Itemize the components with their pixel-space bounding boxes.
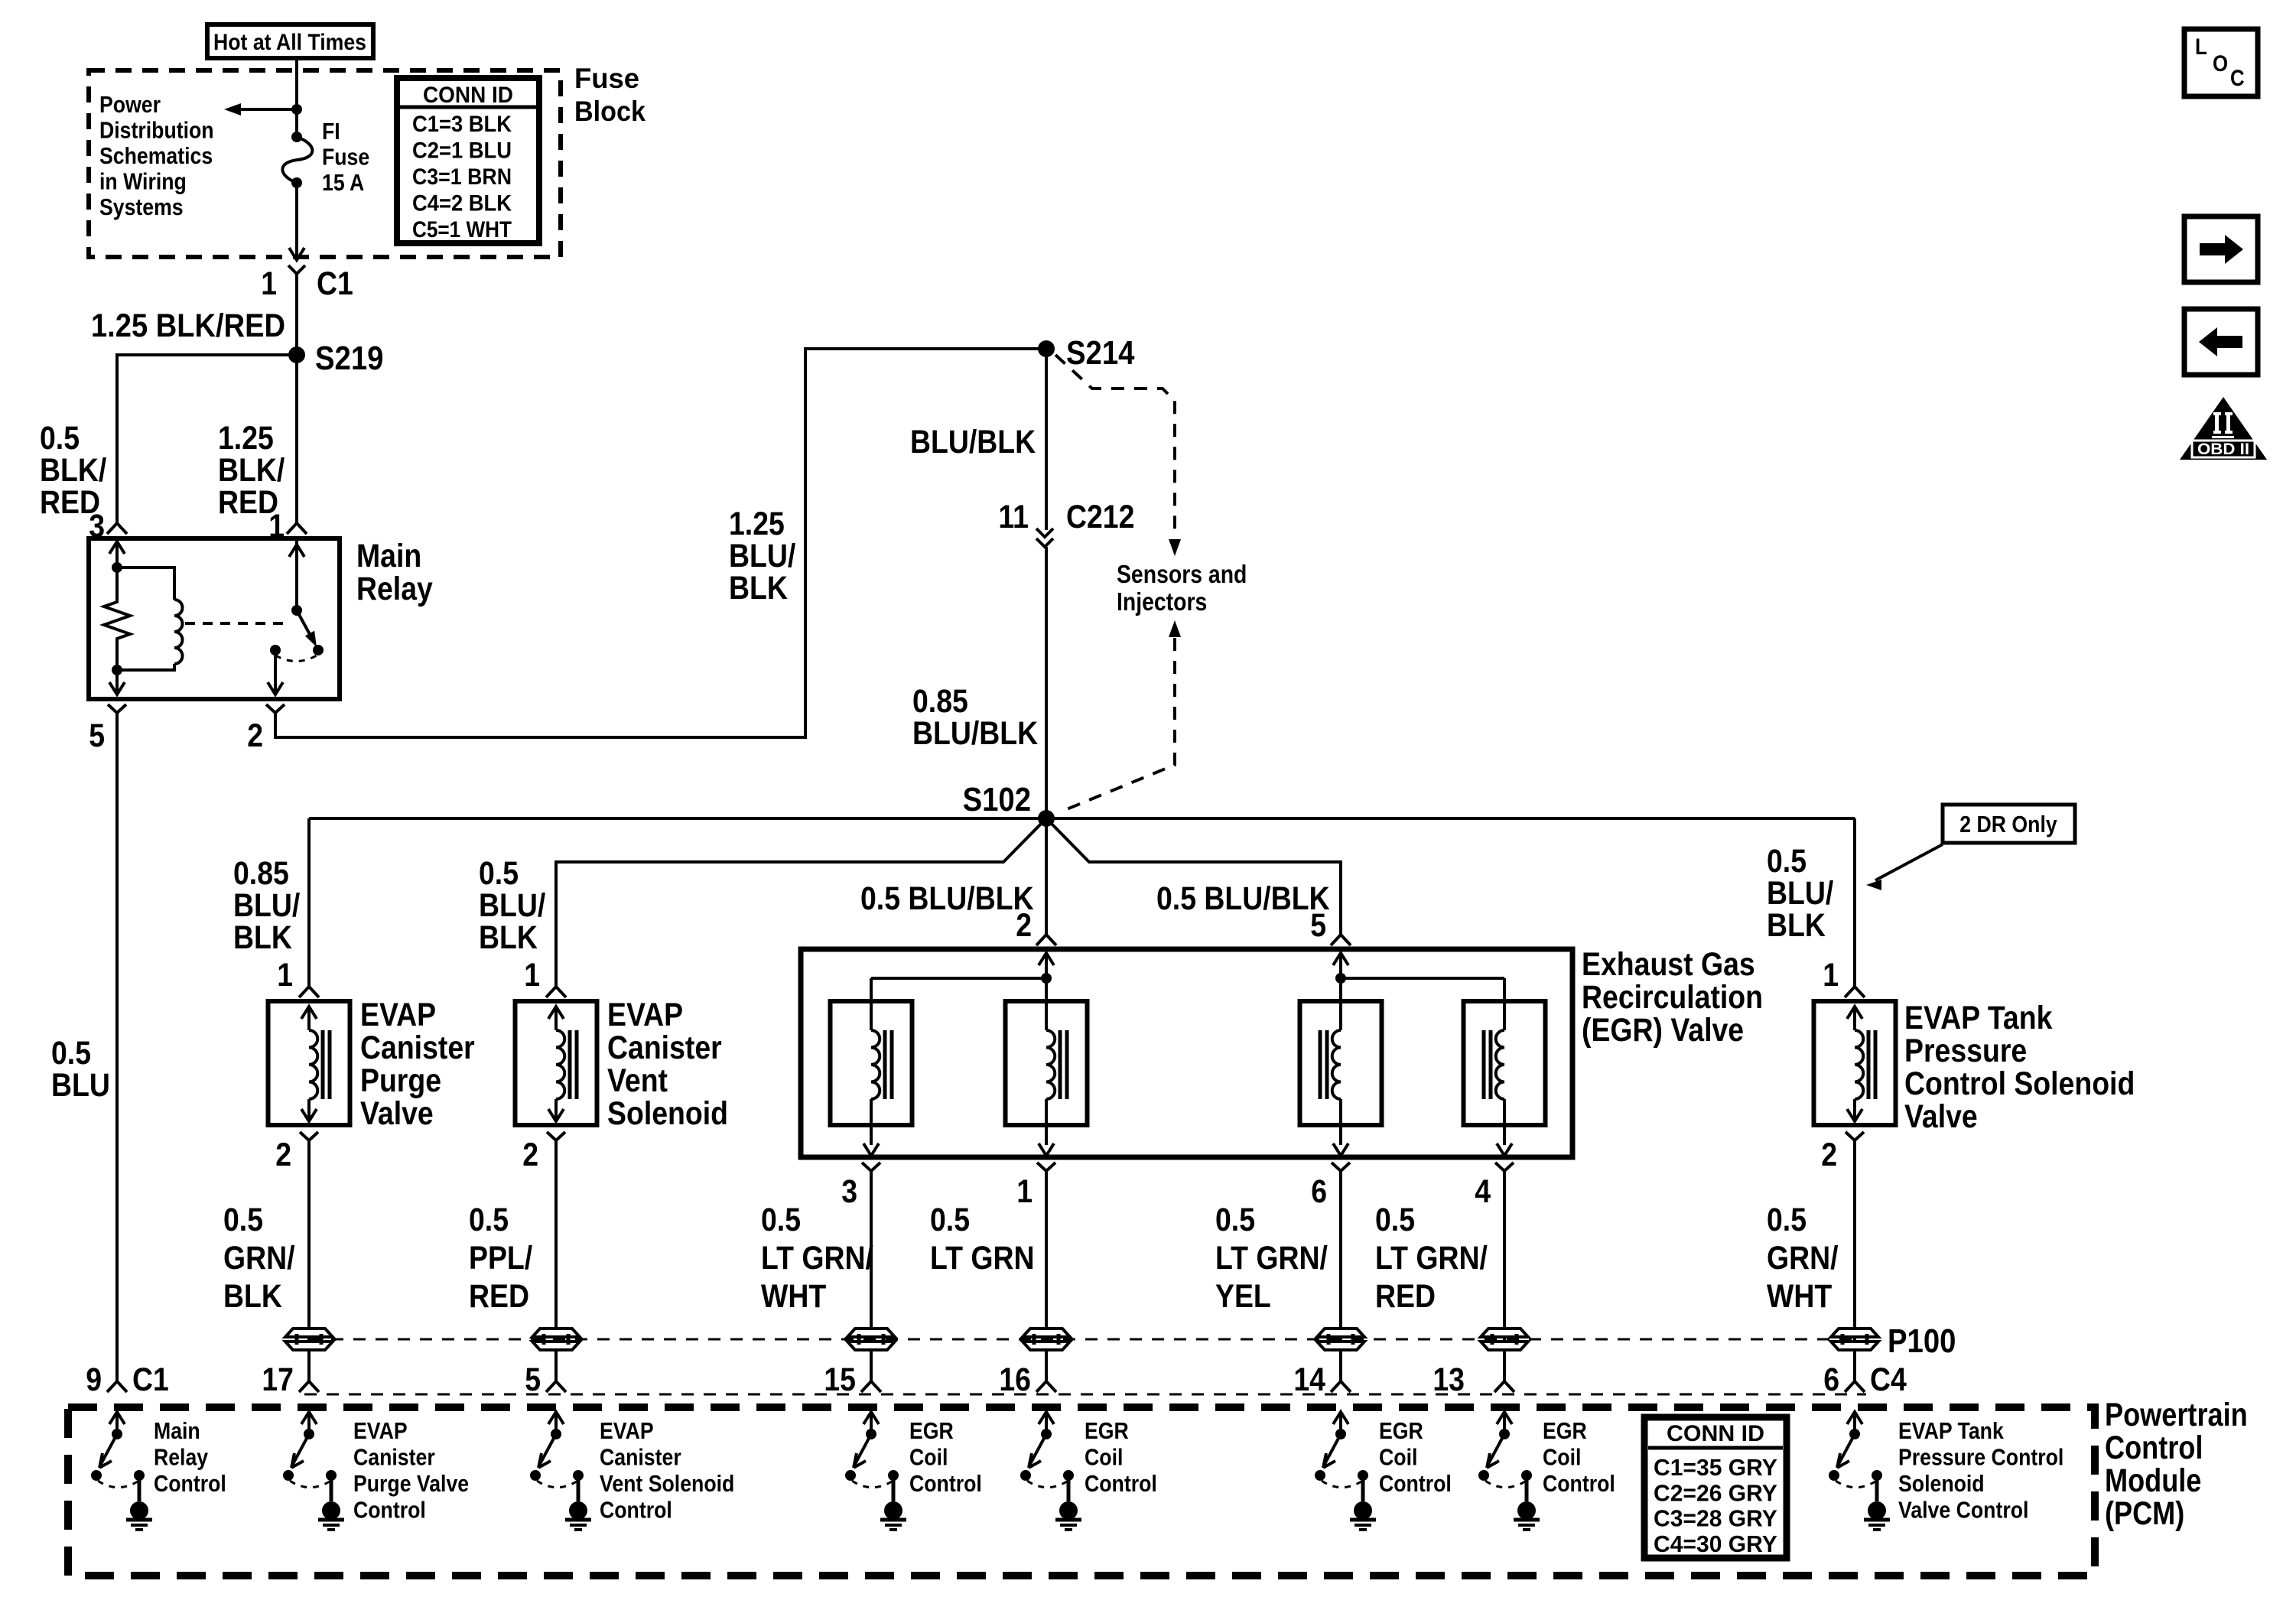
svg-text:1.25 BLK/RED: 1.25 BLK/RED <box>91 307 285 344</box>
svg-text:0.5: 0.5 <box>1215 1202 1255 1238</box>
svg-text:Solenoid: Solenoid <box>1898 1470 1985 1497</box>
svg-text:1.25: 1.25 <box>218 420 274 457</box>
svg-text:Systems: Systems <box>99 194 184 220</box>
label: EGR Coil Control <box>909 1417 982 1497</box>
EGR coil box 3 <box>1300 978 1382 1156</box>
label: EGR Coil Control <box>1085 1417 1157 1497</box>
svg-text:Canister: Canister <box>600 1444 681 1471</box>
EVAP canister vent solenoid pin 2 <box>522 1132 565 1173</box>
svg-text:0.5: 0.5 <box>40 420 80 457</box>
wire label: 1.25 BLK/RED <box>91 307 285 344</box>
svg-text:Pressure Control: Pressure Control <box>1898 1444 2063 1471</box>
connector table CONN ID (fuse block) <box>397 78 539 243</box>
relay coil branch with resistor <box>104 542 130 694</box>
wire: 1.25 BLK/RED from S219 to relay pin 1 <box>295 355 298 523</box>
svg-text:EVAP Tank: EVAP Tank <box>1898 1417 2004 1444</box>
PCM pin 13 connector <box>1433 1361 1514 1398</box>
wire label: 0.5 LT GRN/ YEL <box>1215 1202 1328 1315</box>
svg-text:Injectors: Injectors <box>1117 587 1207 616</box>
wire: 0.5 GRN/WHT tank solenoid to PCM pin 6 <box>1853 1149 1856 1381</box>
svg-text:Distribution: Distribution <box>99 117 214 144</box>
svg-text:RED: RED <box>1375 1278 1436 1315</box>
svg-text:0.5: 0.5 <box>1767 843 1807 880</box>
svg-text:(PCM): (PCM) <box>2105 1495 2184 1532</box>
svg-text:Schematics: Schematics <box>99 142 213 169</box>
svg-text:BLU/: BLU/ <box>479 887 545 924</box>
PCM pin 5 connector <box>525 1361 566 1398</box>
svg-text:6: 6 <box>1311 1173 1327 1210</box>
svg-text:S214: S214 <box>1066 334 1135 372</box>
svg-text:Fuse: Fuse <box>322 144 369 171</box>
svg-text:5: 5 <box>525 1361 541 1398</box>
EGR coil box 1 <box>831 1001 912 1156</box>
wire label: 0.5 BLU <box>51 1035 110 1104</box>
PCM dashed box <box>68 1407 2095 1576</box>
solenoid: EVAP Tank Pressure Control Solenoid Valve <box>1814 1001 1896 1125</box>
connector P100 pass-through at x=1753 <box>1317 1329 1364 1350</box>
connector P100 pass-through at x=404 <box>285 1329 333 1350</box>
svg-text:9: 9 <box>86 1361 102 1398</box>
ground (internal PCM) at x=1967 <box>0 0 1 1</box>
svg-text:Purge Valve: Purge Valve <box>353 1470 469 1497</box>
EGR valve outer box <box>801 949 1572 1157</box>
svg-text:Block: Block <box>574 96 646 127</box>
svg-text:0.5: 0.5 <box>51 1035 91 1072</box>
svg-text:BLU/BLK: BLU/BLK <box>910 424 1036 460</box>
svg-text:C4: C4 <box>1870 1361 1907 1398</box>
svg-text:BLK: BLK <box>479 919 538 956</box>
svg-text:Powertrain: Powertrain <box>2105 1397 2248 1433</box>
svg-text:Control: Control <box>2105 1429 2203 1466</box>
connector P100 pass-through at x=2425 <box>1831 1329 1878 1350</box>
svg-text:C4=2 BLK: C4=2 BLK <box>412 191 512 216</box>
svg-text:BLK: BLK <box>223 1278 282 1315</box>
svg-text:Power: Power <box>99 91 161 118</box>
svg-text:Canister: Canister <box>353 1444 435 1471</box>
svg-text:Control: Control <box>909 1470 982 1497</box>
svg-text:EVAP: EVAP <box>360 997 436 1033</box>
svg-text:LT GRN/: LT GRN/ <box>761 1240 873 1277</box>
EGR pin 3 connector <box>841 1163 880 1210</box>
wire: BLU/BLK from S214 to C212 <box>1045 349 1048 530</box>
wire: 0.5 BLK/RED branch from S219 to relay pin 3 <box>117 355 297 523</box>
wire: S102 distribution bus <box>309 817 1855 820</box>
relay actuation dashed link <box>185 622 286 625</box>
connector table CONN ID (PCM) <box>1644 1417 1787 1558</box>
splice S102 <box>963 781 1055 827</box>
wire: 0.5 LT GRN/YEL EGR pin 6 to PCM pin 14 <box>1339 1179 1342 1381</box>
svg-text:FI: FI <box>322 118 340 145</box>
wire label: 0.5 BLU/ BLK (vent) <box>479 855 545 956</box>
svg-text:GRN/: GRN/ <box>1767 1240 1839 1277</box>
svg-text:1: 1 <box>277 957 293 994</box>
label: Powertrain Control Module (PCM) <box>2105 1397 2248 1532</box>
wire label: 0.5 BLU/ BLK (tank) <box>1767 843 1833 944</box>
svg-text:Main: Main <box>356 538 421 574</box>
wire: 0.5 GRN/BLK purge valve to PCM pin 17 <box>307 1149 311 1381</box>
svg-text:C3=28 GRY: C3=28 GRY <box>1654 1505 1777 1532</box>
svg-text:L: L <box>2195 34 2207 60</box>
svg-text:2: 2 <box>1016 907 1032 944</box>
svg-text:WHT: WHT <box>761 1278 826 1315</box>
svg-text:BLK/: BLK/ <box>218 452 285 489</box>
svg-text:C5=1 WHT: C5=1 WHT <box>412 217 512 242</box>
EVAP canister vent solenoid pin 1 <box>524 957 566 997</box>
EGR pin 5 connector <box>1310 907 1351 945</box>
label: EGR Coil Control <box>1379 1417 1452 1497</box>
PCM driver switch at x=404 <box>283 1412 344 1530</box>
label: P100 <box>1888 1322 1956 1360</box>
svg-text:3: 3 <box>841 1173 857 1210</box>
svg-text:2: 2 <box>275 1137 291 1173</box>
svg-text:0.5 BLU/BLK: 0.5 BLU/BLK <box>860 880 1034 917</box>
ground (internal PCM) at x=153 <box>0 0 1 1</box>
label: EGR Coil Control <box>1543 1417 1615 1497</box>
svg-text:Canister: Canister <box>360 1029 475 1066</box>
ground (internal PCM) at x=727 <box>0 0 1 1</box>
relay pin 1 connector <box>268 508 307 545</box>
svg-text:Valve: Valve <box>360 1095 434 1132</box>
svg-text:Coil: Coil <box>1085 1444 1123 1471</box>
EGR coil box 2 <box>1006 978 1088 1156</box>
fuse F1 FI Fuse 15 A <box>282 109 312 260</box>
svg-text:0.5 BLU/BLK: 0.5 BLU/BLK <box>1156 880 1330 917</box>
relay switch contacts <box>268 538 324 694</box>
wire: 1.25 BLK/RED from fuse to S219 <box>295 278 298 355</box>
relay coil winding <box>117 568 183 670</box>
svg-text:16: 16 <box>999 1361 1031 1398</box>
EGR pin 1 connector <box>1016 1163 1055 1210</box>
svg-text:2: 2 <box>247 717 263 754</box>
svg-text:C1: C1 <box>132 1361 169 1398</box>
svg-text:Solenoid: Solenoid <box>607 1095 728 1132</box>
wire: battery feed into fuse block <box>295 58 298 109</box>
wire: S102 branch down to EGR pin 2 <box>1045 818 1048 935</box>
svg-text:0.5: 0.5 <box>1767 1202 1807 1238</box>
wire label: BLU/BLK <box>910 424 1036 460</box>
svg-text:Coil: Coil <box>909 1444 948 1471</box>
PCM pin 6 connector <box>1823 1361 1907 1398</box>
arrow to power distribution schematics <box>224 103 302 115</box>
wire label: 0.5 PPL/ RED <box>469 1202 532 1315</box>
ground (internal PCM) at x=1139 <box>0 0 1 1</box>
label: EVAP Tank Pressure Control Solenoid Valve Control <box>1898 1417 2063 1524</box>
ground (internal PCM) at x=404 <box>0 0 1 1</box>
label: Fuse Block <box>574 63 646 127</box>
svg-text:11: 11 <box>998 499 1029 535</box>
EVAP tank pressure solenoid pin 2 <box>1821 1132 1864 1173</box>
EGR pin 2 connector <box>1016 907 1056 945</box>
svg-text:C1: C1 <box>317 265 353 302</box>
svg-text:in Wiring: in Wiring <box>99 168 187 195</box>
svg-text:13: 13 <box>1433 1361 1465 1398</box>
PCM driver switch at x=1753 <box>1315 1412 1376 1530</box>
solenoid: EVAP Canister Vent Solenoid <box>515 1001 597 1125</box>
svg-text:Valve: Valve <box>1904 1098 1978 1135</box>
svg-text:YEL: YEL <box>1215 1278 1271 1315</box>
wire label: 0.5 LT GRN/ RED <box>1375 1202 1488 1315</box>
wire label: 0.5 BLU/BLK (EGR pin 5) <box>1156 880 1330 917</box>
callout box: 2 DR Only <box>1866 805 2075 890</box>
wire: 0.85 BLU/BLK from C212 to S102 <box>1045 547 1048 818</box>
svg-text:Coil: Coil <box>1379 1444 1417 1471</box>
label: EVAP Canister Purge Valve Control <box>353 1417 469 1524</box>
label: EVAP Canister Vent Solenoid Control <box>600 1417 734 1524</box>
svg-text:5: 5 <box>1310 907 1326 944</box>
svg-text:C3=1 BRN: C3=1 BRN <box>412 164 512 190</box>
splice S214 <box>1038 334 1135 372</box>
svg-text:14: 14 <box>1293 1361 1325 1398</box>
main relay box <box>89 538 433 699</box>
svg-text:Pressure: Pressure <box>1904 1033 2027 1069</box>
connector C212 pin 11 <box>998 499 1134 547</box>
svg-text:17: 17 <box>262 1361 294 1398</box>
PCM driver switch at x=153 <box>91 1412 152 1530</box>
svg-text:Purge: Purge <box>360 1062 441 1099</box>
PCM pin 14 connector <box>1293 1361 1351 1398</box>
svg-text:P100: P100 <box>1888 1322 1956 1360</box>
svg-text:LT GRN/: LT GRN/ <box>1215 1240 1328 1277</box>
icon: OBD II triangle <box>2180 397 2267 460</box>
wire: 0.5 LT GRN/WHT EGR pin 3 to PCM pin 15 <box>870 1179 873 1381</box>
EVAP canister purge valve pin 1 <box>277 957 319 997</box>
svg-text:0.5: 0.5 <box>930 1202 970 1238</box>
svg-text:RED: RED <box>469 1278 529 1315</box>
svg-text:CONN ID: CONN ID <box>423 83 513 108</box>
svg-text:Control: Control <box>1543 1470 1615 1497</box>
svg-text:WHT: WHT <box>1767 1278 1832 1315</box>
svg-text:Hot at All Times: Hot at All Times <box>213 30 366 55</box>
svg-text:BLK: BLK <box>729 570 788 607</box>
wire: 0.85 BLU/BLK branch to EVAP canister purge valve <box>307 818 311 987</box>
svg-text:LT GRN: LT GRN <box>930 1240 1035 1277</box>
ground (internal PCM) at x=1368 <box>0 0 1 1</box>
EVAP tank pressure solenoid pin 1 <box>1823 957 1865 997</box>
svg-text:LT GRN/: LT GRN/ <box>1375 1240 1488 1277</box>
svg-text:Valve Control: Valve Control <box>1898 1497 2028 1524</box>
svg-text:BLU/: BLU/ <box>729 538 795 574</box>
svg-text:S219: S219 <box>315 340 383 377</box>
svg-text:1: 1 <box>1016 1173 1033 1210</box>
note: Power Distribution Schematics in Wiring Systems <box>99 91 214 220</box>
svg-text:C2=1 BLU: C2=1 BLU <box>412 138 512 164</box>
PCM driver switch at x=2425 <box>1829 1412 1890 1530</box>
svg-text:OBD II: OBD II <box>2197 441 2249 458</box>
ground (internal PCM) at x=2425 <box>0 0 1 1</box>
svg-text:EVAP Tank: EVAP Tank <box>1904 1000 2052 1036</box>
label: EVAP Canister Vent Solenoid <box>607 997 728 1132</box>
EGR pin 4 connector <box>1475 1163 1514 1210</box>
svg-text:EVAP: EVAP <box>607 997 683 1033</box>
svg-text:Coil: Coil <box>1543 1444 1581 1471</box>
icon: LOC box <box>2184 29 2258 96</box>
svg-text:C: C <box>2230 66 2245 91</box>
svg-text:BLU/BLK: BLU/BLK <box>912 715 1038 752</box>
wire: 0.5 LT GRN/RED EGR pin 4 to PCM pin 13 <box>1503 1179 1506 1381</box>
PCM driver switch at x=1139 <box>845 1412 906 1530</box>
icon: arrow right box <box>2184 216 2258 282</box>
svg-text:BLU/: BLU/ <box>1767 875 1833 912</box>
wire: 0.5 BLU from relay pin 5 to PCM pin 9 <box>115 721 119 1381</box>
svg-text:C1=3 BLK: C1=3 BLK <box>412 112 512 137</box>
wire label: 0.5 GRN/ BLK <box>223 1202 295 1315</box>
label: EVAP Canister Purge Valve <box>360 997 475 1132</box>
svg-text:Main: Main <box>154 1417 200 1444</box>
svg-text:1: 1 <box>261 265 277 302</box>
connector P100 pass-through at x=1139 <box>847 1329 895 1350</box>
svg-text:0.5: 0.5 <box>761 1202 801 1238</box>
svg-text:Control: Control <box>154 1470 226 1497</box>
PCM pin 15 connector <box>824 1361 881 1398</box>
svg-text:BLK/: BLK/ <box>40 452 106 489</box>
svg-text:Vent: Vent <box>607 1062 668 1099</box>
label box: Hot at All Times <box>207 24 373 58</box>
EGR coil box 4 <box>1464 1001 1546 1156</box>
svg-text:C1=35 GRY: C1=35 GRY <box>1654 1454 1777 1481</box>
svg-text:0.5: 0.5 <box>469 1202 509 1238</box>
svg-text:5: 5 <box>89 717 105 754</box>
svg-text:C2=26 GRY: C2=26 GRY <box>1654 1479 1777 1506</box>
wire: 1.25 BLU/BLK from relay pin 2 to S214 <box>275 349 1046 737</box>
label: Main Relay Control <box>154 1417 226 1497</box>
relay pin 3 connector <box>89 508 127 545</box>
svg-text:C4=30 GRY: C4=30 GRY <box>1654 1530 1777 1557</box>
solenoid: EVAP Canister Purge Valve <box>268 1001 350 1125</box>
wire label: 1.25 BLK/ RED <box>218 420 285 521</box>
svg-text:Control: Control <box>1379 1470 1452 1497</box>
PCM connector face dashed line <box>304 1394 1866 1396</box>
svg-text:1: 1 <box>524 957 540 994</box>
svg-text:Vent Solenoid: Vent Solenoid <box>600 1470 734 1497</box>
svg-text:EGR: EGR <box>909 1417 954 1444</box>
PCM driver switch at x=1368 <box>1020 1412 1081 1530</box>
svg-text:6: 6 <box>1823 1361 1839 1398</box>
wire: 0.5 PPL/RED vent solenoid to PCM pin 5 <box>554 1149 558 1381</box>
svg-text:S102: S102 <box>963 781 1031 818</box>
note: Sensors and Injectors <box>1117 560 1247 616</box>
wire: 0.5 BLU/BLK branch to EVAP tank pressure control solenoid valve <box>1853 818 1856 987</box>
label: Exhaust Gas Recirculation (EGR) Valve <box>1582 946 1763 1049</box>
svg-text:PPL/: PPL/ <box>469 1240 532 1277</box>
svg-text:2: 2 <box>522 1137 538 1173</box>
dashed wire: S214 to sensors and injectors <box>1055 355 1181 556</box>
PCM driver switch at x=1967 <box>1478 1412 1540 1530</box>
svg-text:0.85: 0.85 <box>912 683 968 720</box>
fuse value label: FI Fuse 15 A <box>322 118 369 196</box>
svg-text:Recirculation: Recirculation <box>1582 979 1763 1016</box>
svg-text:BLK: BLK <box>233 919 292 956</box>
connector P100 dashed line <box>309 1338 1852 1341</box>
PCM driver switch at x=727 <box>530 1412 591 1530</box>
EGR coil B feed from pin 5 <box>1333 953 1504 1030</box>
splice S219 <box>288 340 383 377</box>
svg-text:Control: Control <box>1085 1470 1157 1497</box>
svg-text:C212: C212 <box>1066 499 1134 535</box>
svg-text:EVAP: EVAP <box>600 1417 654 1444</box>
svg-text:EGR: EGR <box>1543 1417 1587 1444</box>
PCM pin 17 connector <box>262 1361 319 1398</box>
label: EVAP Tank Pressure Control Solenoid Valve <box>1904 1000 2135 1135</box>
svg-text:Exhaust Gas: Exhaust Gas <box>1582 946 1755 983</box>
svg-text:Relay: Relay <box>154 1444 209 1471</box>
svg-text:0.5: 0.5 <box>1375 1202 1415 1238</box>
connector P100 pass-through at x=727 <box>532 1329 580 1350</box>
svg-text:0.5: 0.5 <box>479 855 519 892</box>
wire: S102 branch to EVAP canister vent solenoid <box>556 818 1046 987</box>
svg-text:(EGR) Valve: (EGR) Valve <box>1582 1012 1744 1049</box>
svg-text:Control Solenoid: Control Solenoid <box>1904 1065 2135 1102</box>
wire: 0.5 LT GRN EGR pin 1 to PCM pin 16 <box>1045 1179 1048 1381</box>
svg-text:1.25: 1.25 <box>729 506 785 542</box>
svg-text:2: 2 <box>1821 1137 1837 1173</box>
wire: S102 branch to EGR pin 5 <box>1046 818 1341 935</box>
svg-text:O: O <box>2213 51 2228 76</box>
svg-text:Sensors and: Sensors and <box>1117 560 1247 588</box>
svg-text:0.85: 0.85 <box>233 855 289 892</box>
svg-text:Control: Control <box>353 1497 426 1524</box>
PCM pin 9 connector <box>86 1361 169 1398</box>
EVAP canister purge valve pin 2 <box>275 1132 318 1173</box>
svg-text:4: 4 <box>1475 1173 1491 1210</box>
svg-text:15: 15 <box>824 1361 856 1398</box>
svg-text:EGR: EGR <box>1379 1417 1423 1444</box>
relay pin 5 connector <box>89 704 126 754</box>
connector P100 pass-through at x=1967 <box>1481 1329 1528 1350</box>
svg-text:EVAP: EVAP <box>353 1417 408 1444</box>
relay pin 2 connector <box>247 704 285 754</box>
svg-text:EGR: EGR <box>1085 1417 1129 1444</box>
PCM pin 16 connector <box>999 1361 1056 1398</box>
EGR pin 6 connector <box>1311 1163 1350 1210</box>
icon: arrow left box <box>2184 309 2258 375</box>
wire label: 0.5 BLU/BLK (EGR pin 2) <box>860 880 1034 917</box>
svg-text:Fuse: Fuse <box>574 63 639 94</box>
connector P100 pass-through at x=1368 <box>1023 1329 1070 1350</box>
wire label: 0.85 BLU/BLK <box>912 683 1038 752</box>
wire label: 0.5 LT GRN/ WHT <box>761 1202 873 1315</box>
ground (internal PCM) at x=1753 <box>0 0 1 1</box>
svg-text:Control: Control <box>600 1497 672 1524</box>
wire label: 0.85 BLU/ BLK <box>233 855 300 956</box>
svg-text:15 A: 15 A <box>322 169 364 196</box>
svg-text:BLU: BLU <box>51 1067 110 1104</box>
svg-text:1: 1 <box>1823 957 1839 994</box>
svg-text:Module: Module <box>2105 1462 2201 1499</box>
fuse block dashed outline <box>89 70 561 257</box>
svg-text:Canister: Canister <box>607 1029 722 1066</box>
svg-text:BLK: BLK <box>1767 907 1826 944</box>
svg-text:BLU/: BLU/ <box>233 887 300 924</box>
EGR coil A feed from pin 2 <box>871 953 1054 1030</box>
wire label: 0.5 GRN/ WHT <box>1767 1202 1839 1315</box>
svg-text:0.5: 0.5 <box>223 1202 263 1238</box>
svg-text:GRN/: GRN/ <box>223 1240 295 1277</box>
wire label: 1.25 BLU/ BLK <box>729 506 795 607</box>
connector C1 pin 1 (fuse block output) <box>261 265 353 302</box>
wire label: 0.5 BLK/RED <box>40 420 106 521</box>
svg-text:CONN ID: CONN ID <box>1667 1421 1764 1446</box>
dashed wire: sensors and injectors return to S102 <box>1063 620 1181 811</box>
svg-text:Relay: Relay <box>356 571 433 607</box>
svg-text:2 DR Only: 2 DR Only <box>1959 811 2057 838</box>
wire label: 0.5 LT GRN <box>930 1202 1035 1277</box>
